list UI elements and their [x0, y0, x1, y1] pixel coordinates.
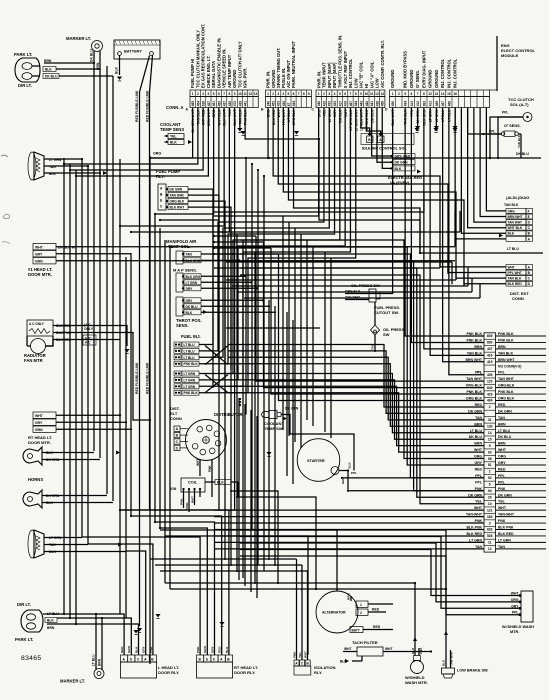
ground (conn D pin)	[452, 128, 457, 131]
wire ladder row 11 feed	[279, 254, 485, 401]
svg-text:6: 6	[213, 657, 215, 661]
wire bundle to RT relay pin 1	[82, 537, 200, 655]
svg-text:BLK: BLK	[134, 646, 138, 653]
svg-text:240: 240	[266, 101, 270, 107]
svg-text:PARK. NEUTRAL INPUT: PARK. NEUTRAL INPUT	[291, 41, 296, 88]
svg-text:BATTERY: BATTERY	[124, 49, 142, 54]
svg-text:TAN BLK: TAN BLK	[498, 351, 514, 355]
svg-text:SW: SW	[383, 332, 390, 337]
svg-text:439: 439	[238, 101, 242, 107]
svg-text:IND. MOD BYPASS: IND. MOD BYPASS	[403, 51, 408, 88]
svg-text:29: 29	[488, 495, 492, 499]
wire door motor 2 row 2	[56, 421, 126, 423]
wire side marker LT GRN	[44, 537, 82, 539]
svg-text:BATT: BATT	[352, 628, 360, 632]
wire ECM A5	[155, 108, 214, 215]
svg-text:WHT: WHT	[35, 414, 44, 418]
tach filter	[340, 640, 432, 664]
svg-text:2: 2	[272, 92, 274, 96]
svg-text:TCC CLUTCH A/T ONLY: TCC CLUTCH A/T ONLY	[237, 41, 242, 88]
wire	[250, 410, 252, 592]
svg-text:410: 410	[322, 101, 326, 107]
O2 sensor	[482, 124, 521, 158]
wire ladder row 12 feed (injector)	[228, 345, 484, 407]
svg-text:YEL: YEL	[170, 135, 176, 139]
svg-text:417: 417	[338, 101, 342, 107]
svg-text:31: 31	[488, 418, 492, 422]
svg-text:429: 429	[487, 392, 493, 396]
wire ECM C9 to IAC B	[361, 108, 370, 137]
ALDL diagnostic connector	[504, 195, 533, 241]
ECM connector band C	[316, 35, 385, 131]
svg-text:DISTRIBUTOR: DISTRIBUTOR	[214, 412, 243, 417]
wire	[232, 285, 468, 287]
svg-text:PNK BLK: PNK BLK	[498, 390, 514, 394]
svg-text:LT BLU: LT BLU	[498, 429, 511, 433]
svg-text:6: 6	[218, 92, 220, 96]
svg-text:93: 93	[488, 450, 492, 454]
wire	[244, 297, 480, 299]
svg-text:94: 94	[488, 489, 492, 493]
svg-text:MTR.: MTR.	[510, 630, 519, 634]
wire ladder row 31 feed	[214, 529, 484, 531]
splice arrow (horn)	[116, 451, 120, 455]
svg-text:DK BLU: DK BLU	[90, 49, 94, 62]
svg-text:2: 2	[323, 92, 325, 96]
coolant temp sensor	[160, 122, 184, 145]
svg-text:430: 430	[282, 101, 286, 107]
wire head door motor row 3	[56, 260, 455, 262]
svg-text:GROUND: GROUND	[409, 70, 414, 88]
svg-text:TEMP SENS: TEMP SENS	[160, 127, 184, 132]
svg-text:B: B	[176, 434, 179, 438]
svg-text:PNK BLK: PNK BLK	[184, 391, 199, 395]
junction	[489, 157, 491, 159]
wire horn 2 DK GRN	[42, 495, 107, 497]
wire	[274, 306, 276, 566]
svg-text:ORG: ORG	[153, 152, 161, 156]
svg-text:1: 1	[192, 92, 194, 96]
alternator	[316, 591, 393, 633]
svg-text:10: 10	[238, 92, 242, 96]
svg-text:WHT: WHT	[35, 246, 44, 250]
#2 head lt door motor rows	[28, 412, 56, 445]
svg-text:TCC CLUTCH MANUAL ONLY: TCC CLUTCH MANUAL ONLY	[195, 30, 200, 88]
svg-text:PPL: PPL	[498, 480, 506, 484]
wire	[459, 211, 461, 232]
ground (left bundle)	[133, 630, 138, 633]
wire sensor tail	[201, 253, 233, 255]
svg-text:LT GRN: LT GRN	[498, 538, 511, 542]
svg-text:639: 639	[202, 101, 206, 107]
svg-text:BLK: BLK	[348, 462, 352, 469]
wire bundle to L relay pin 4	[126, 551, 146, 655]
svg-text:BLK: BLK	[225, 646, 229, 653]
svg-text:FAN MTR: FAN MTR	[24, 358, 43, 363]
wire fuel pump relay row 1	[188, 189, 213, 388]
svg-text:C: C	[528, 226, 531, 230]
wire	[251, 164, 253, 530]
distributor EST connector (right)	[440, 265, 533, 302]
wire left bus 11	[130, 253, 132, 516]
svg-text:GRN: GRN	[35, 428, 43, 432]
junction	[239, 398, 241, 400]
svg-text:432: 432	[328, 101, 332, 107]
svg-text:430: 430	[228, 101, 232, 107]
wire	[218, 216, 220, 510]
ground (ECM D5)	[415, 126, 420, 129]
wire ladder row 14 feed (injector)	[228, 357, 484, 420]
svg-text:SERIAL DATA: SERIAL DATA	[211, 61, 216, 88]
svg-text:416: 416	[487, 354, 493, 358]
svg-text:C: C	[176, 440, 179, 444]
wire sensor tail	[201, 287, 257, 289]
svg-text:PWR. IN.: PWR. IN.	[316, 71, 321, 88]
svg-text:PPL: PPL	[498, 474, 506, 478]
wire	[306, 240, 308, 420]
svg-text:DK GRN: DK GRN	[170, 188, 183, 192]
svg-text:GRY: GRY	[35, 253, 43, 257]
svg-text:B: B	[261, 108, 264, 112]
splice arrow (upper lamp)	[103, 171, 107, 175]
svg-text:BRN WHT: BRN WHT	[508, 215, 523, 219]
wire ECM A4	[76, 108, 208, 177]
wire	[312, 246, 314, 426]
svg-text:TAN: TAN	[498, 545, 505, 549]
svg-text:S: S	[206, 657, 209, 661]
wire	[454, 211, 456, 247]
junction	[213, 235, 215, 237]
low brake switch	[441, 631, 488, 678]
wire ECM C3 to injector	[199, 108, 329, 358]
fuel pressure cutout switch	[371, 302, 406, 352]
wire park lamp BLK	[56, 69, 100, 70]
horn H2	[23, 490, 60, 508]
svg-text:8: 8	[303, 92, 305, 96]
svg-text:7: 7	[350, 92, 352, 96]
svg-text:GRY: GRY	[142, 645, 146, 653]
svg-text:472: 472	[233, 101, 237, 107]
wire starter RED to ladder row 25	[348, 471, 484, 491]
wire ECM D1 to oil press sw	[369, 108, 393, 294]
svg-text:B: B	[528, 271, 531, 275]
wire left bus 6	[99, 70, 101, 458]
wire ladder row 34 feed	[214, 548, 484, 550]
marker lamp ML1 (top)	[66, 36, 103, 70]
svg-text:DK GRN: DK GRN	[498, 493, 512, 497]
wire ladder row 28 feed	[214, 509, 484, 511]
wire	[263, 176, 265, 571]
svg-text:LT BLU: LT BLU	[184, 356, 196, 360]
wire PPL to TCC solenoid	[490, 117, 523, 158]
splice arrow (IAC A)	[379, 131, 383, 135]
svg-text:LT BLU: LT BLU	[507, 247, 519, 251]
wire	[439, 253, 441, 268]
wire ECM A9 (down to lower bundle)	[120, 108, 235, 511]
svg-text:993: 993	[422, 101, 426, 107]
svg-text:DK BLU: DK BLU	[45, 75, 58, 79]
svg-text:A: A	[160, 187, 163, 191]
wire left bus 4	[81, 159, 83, 537]
wire to ALDL row 5	[461, 108, 506, 234]
wire upper lamp BLK	[44, 172, 100, 174]
svg-text:RED: RED	[372, 608, 380, 612]
scan artifact left edge 1	[1, 155, 8, 157]
svg-text:450: 450	[217, 101, 221, 107]
wire ladder row 19 feed (injector)	[228, 393, 484, 452]
svg-text:DK BLU W: DK BLU W	[58, 246, 76, 250]
svg-text:442: 442	[365, 101, 369, 107]
wire	[256, 416, 258, 598]
svg-text:WHT: WHT	[385, 647, 393, 651]
svg-text:BLK ORG: BLK ORG	[186, 275, 201, 279]
svg-text:BRN WHT: BRN WHT	[498, 358, 515, 362]
svg-text:DIR LT.: DIR LT.	[17, 602, 31, 607]
wire left bus 7	[106, 66, 108, 494]
wire sensor tail	[201, 299, 263, 301]
svg-text:2: 2	[489, 405, 491, 409]
svg-text:830: 830	[487, 341, 493, 345]
wire ECM C4 to injector	[199, 108, 335, 364]
wire to ALDL row 1	[486, 108, 506, 211]
scan artifact left edge 3	[2, 242, 10, 244]
ground (conn B pin)	[294, 131, 299, 134]
svg-text:416: 416	[344, 101, 348, 107]
svg-text:BRN: BRN	[498, 442, 506, 446]
wire ECM D3 to ladder row 1	[405, 108, 484, 337]
coolant temp switch	[262, 407, 355, 471]
svg-text:DIAGNOSTIC ENABLE IN.: DIAGNOSTIC ENABLE IN.	[216, 37, 221, 88]
wire ECM C13 to EVRV 3	[382, 108, 391, 169]
svg-text:LOW: LOW	[375, 78, 380, 88]
svg-text:163: 163	[487, 515, 493, 519]
svg-text:MARKER LT.: MARKER LT.	[66, 36, 91, 41]
svg-text:CONN: CONN	[512, 296, 524, 301]
svg-text:11: 11	[488, 541, 492, 545]
svg-text:THROTTLE POS. SENS. IN.: THROTTLE POS. SENS. IN.	[337, 35, 342, 88]
svg-text:PPL: PPL	[498, 371, 506, 375]
svg-text:INJ. CONTROL: INJ. CONTROL	[453, 58, 458, 88]
svg-text:O² SENS.: O² SENS.	[504, 124, 521, 128]
svg-text:FUEL PUMP HI: FUEL PUMP HI	[190, 59, 195, 88]
svg-text:8: 8	[228, 92, 230, 96]
wire isolation rly B	[160, 570, 308, 572]
wire sensor tail	[201, 275, 245, 277]
svg-text:C: C	[312, 108, 315, 112]
svg-text:413: 413	[410, 101, 414, 107]
svg-text:DK GRN: DK GRN	[498, 409, 512, 413]
wire	[88, 246, 455, 248]
wire ECM D12 to O2 sensor	[468, 108, 501, 135]
svg-text:TAN: TAN	[186, 253, 193, 257]
svg-text:BRN: BRN	[98, 658, 102, 666]
wire left bus 1	[63, 158, 65, 614]
svg-text:BLK: BLK	[45, 68, 52, 72]
manifold air temp solenoid	[166, 239, 201, 264]
wire	[240, 537, 448, 609]
svg-text:ORG-BLK: ORG-BLK	[498, 384, 515, 388]
scan artifact left edge 2	[3, 214, 10, 219]
svg-text:TAN WHT: TAN WHT	[498, 377, 515, 381]
svg-text:B: B	[227, 657, 230, 661]
svg-text:PNK: PNK	[196, 646, 200, 653]
wire ECM D5 ground stub	[417, 108, 419, 127]
svg-text:438: 438	[375, 101, 379, 107]
wire	[455, 267, 457, 280]
svg-text:9: 9	[489, 444, 491, 448]
svg-text:PNK: PNK	[292, 651, 296, 658]
dir / park lamp PL2 (bottom left)	[15, 602, 59, 642]
wire bundle to RT relay pin 4	[131, 516, 222, 655]
svg-text:MODULE: MODULE	[501, 53, 519, 58]
svg-text:467: 467	[349, 101, 353, 107]
wire to ALDL row 2	[480, 108, 506, 217]
wire ECM B2 to DIST EST	[273, 108, 440, 267]
wire injector crossover 2	[205, 375, 228, 393]
wire bundle to RT relay pin 3	[155, 522, 215, 655]
svg-text:EX GAS RECIRCULATION CONT.: EX GAS RECIRCULATION CONT.	[201, 24, 206, 88]
wire sensor tail	[201, 305, 269, 307]
svg-text:DK BLU: DK BLU	[498, 435, 512, 439]
wire	[300, 234, 302, 448]
junction	[318, 138, 320, 140]
ground (head lt rly)	[155, 614, 160, 617]
svg-text:3: 3	[202, 92, 204, 96]
svg-text:B: B	[160, 193, 163, 197]
svg-text:PARK LT.: PARK LT.	[15, 637, 33, 642]
wire	[240, 556, 446, 589]
wire ECM D9 to ladder row 5	[443, 108, 484, 362]
svg-text:9: 9	[234, 92, 236, 96]
svg-text:PNK: PNK	[419, 647, 423, 654]
svg-text:RED: RED	[120, 646, 124, 653]
wire ECM A8	[131, 108, 229, 233]
svg-text:GRY: GRY	[210, 645, 214, 653]
svg-text:BLK: BLK	[508, 232, 515, 236]
park / dir lamp PL1 (top left)	[14, 52, 59, 88]
svg-text:A: A	[144, 657, 147, 661]
svg-text:BLK: BLK	[170, 141, 177, 145]
svg-text:ORG BLK: ORG BLK	[498, 397, 515, 401]
wire ladder row 20 feed	[240, 240, 484, 459]
wire horn 1 BLK	[42, 452, 94, 454]
ECM connector band A	[190, 24, 258, 133]
wire ladder row 26 feed	[240, 268, 484, 497]
wire	[479, 284, 481, 298]
svg-text:BLK WHT: BLK WHT	[170, 206, 185, 210]
svg-text:640: 640	[487, 386, 493, 390]
wire bottom marker 2	[101, 618, 103, 645]
svg-text:14: 14	[441, 92, 445, 96]
svg-text:423: 423	[277, 101, 281, 107]
svg-text:413: 413	[429, 101, 433, 107]
svg-text:WHT: WHT	[498, 506, 507, 510]
svg-text:433: 433	[333, 101, 337, 107]
svg-text:S: S	[130, 657, 133, 661]
distributor EST connector	[170, 406, 188, 451]
svg-text:2: 2	[197, 92, 199, 96]
wire to ALDL row 6	[455, 108, 506, 239]
svg-text:IGN. PWR.: IGN. PWR.	[243, 68, 248, 88]
svg-text:12: 12	[488, 547, 492, 551]
svg-text:340: 340	[317, 101, 321, 107]
wire ECM C8 to injector	[199, 108, 356, 393]
svg-text:C: C	[528, 277, 531, 281]
wire door motor 2 row 1	[56, 414, 120, 416]
wire ladder row 21 feed	[240, 247, 484, 465]
svg-text:YEL: YEL	[498, 500, 506, 504]
svg-text:BRN: BRN	[47, 626, 55, 630]
svg-text:BLK PNK: BLK PNK	[498, 526, 514, 530]
wire ladder row 23 feed	[240, 254, 484, 478]
svg-text:ALTERNATOR: ALTERNATOR	[322, 611, 346, 615]
splice arrow (tps)	[203, 310, 207, 314]
wire side marker TAN	[44, 544, 88, 546]
ground (battery)	[117, 77, 122, 80]
wire isolation rly C	[155, 564, 302, 566]
ENG ELECT CONTROL MODULE label	[501, 43, 536, 58]
wire marker feed	[93, 63, 95, 451]
svg-text:BLK: BLK	[115, 66, 119, 74]
wire	[238, 398, 240, 580]
wire ladder row 16 feed (injector)	[228, 374, 484, 433]
svg-text:DK BLU: DK BLU	[186, 305, 199, 309]
svg-text:ORG: ORG	[508, 209, 516, 213]
svg-text:9: 9	[308, 92, 310, 96]
splice arrow (coolant temp sens)	[188, 140, 192, 144]
svg-text:10: 10	[488, 502, 492, 506]
wire left bus 5	[87, 166, 89, 544]
junction	[445, 588, 447, 590]
svg-text:2: 2	[489, 470, 491, 474]
svg-text:O² SENS.: O² SENS.	[415, 70, 420, 88]
svg-text:YEL: YEL	[298, 652, 302, 658]
svg-text:SOL (A-T): SOL (A-T)	[510, 102, 529, 107]
svg-text:INJ. CONTROL: INJ. CONTROL	[348, 58, 353, 88]
radiator fan motor M3	[24, 320, 96, 363]
wire	[220, 231, 460, 233]
svg-text:BLK RED: BLK RED	[508, 282, 523, 286]
svg-text:16: 16	[453, 92, 457, 96]
svg-text:465: 465	[191, 101, 195, 107]
svg-text:WASH MTR.: WASH MTR.	[405, 680, 428, 685]
windshield wash motor connector (right)	[448, 591, 534, 634]
svg-text:121: 121	[487, 508, 493, 512]
junction	[213, 247, 215, 249]
ground (ECM D8)	[434, 126, 439, 129]
svg-text:B: B	[151, 657, 154, 661]
wire	[254, 252, 256, 584]
wire red fusible link 2	[145, 56, 152, 510]
ground (conn D pin 1)	[414, 128, 419, 131]
wire ECM D10 to ladder row 7	[449, 108, 484, 375]
svg-text:RED: RED	[498, 403, 506, 407]
wire fuel pump relay row 2	[188, 195, 219, 382]
svg-text:1: 1	[392, 92, 394, 96]
svg-text:6: 6	[489, 483, 491, 487]
wire ladder row 9 feed	[264, 242, 485, 388]
svg-text:SENS.: SENS.	[176, 323, 189, 328]
svg-text:IDLE AIR CONTROL SOL: IDLE AIR CONTROL SOL	[362, 147, 407, 151]
svg-text:11: 11	[243, 92, 247, 96]
wire ladder row 18 feed (injector)	[228, 386, 484, 445]
svg-text:MARKER LT.: MARKER LT.	[60, 679, 85, 684]
wire park lamp DK BLU	[59, 75, 113, 77]
wire	[214, 211, 424, 213]
wire bundle to L relay pin 5	[88, 544, 153, 655]
svg-text:PPL: PPL	[475, 480, 483, 484]
side marker lamp with coil	[28, 530, 62, 558]
